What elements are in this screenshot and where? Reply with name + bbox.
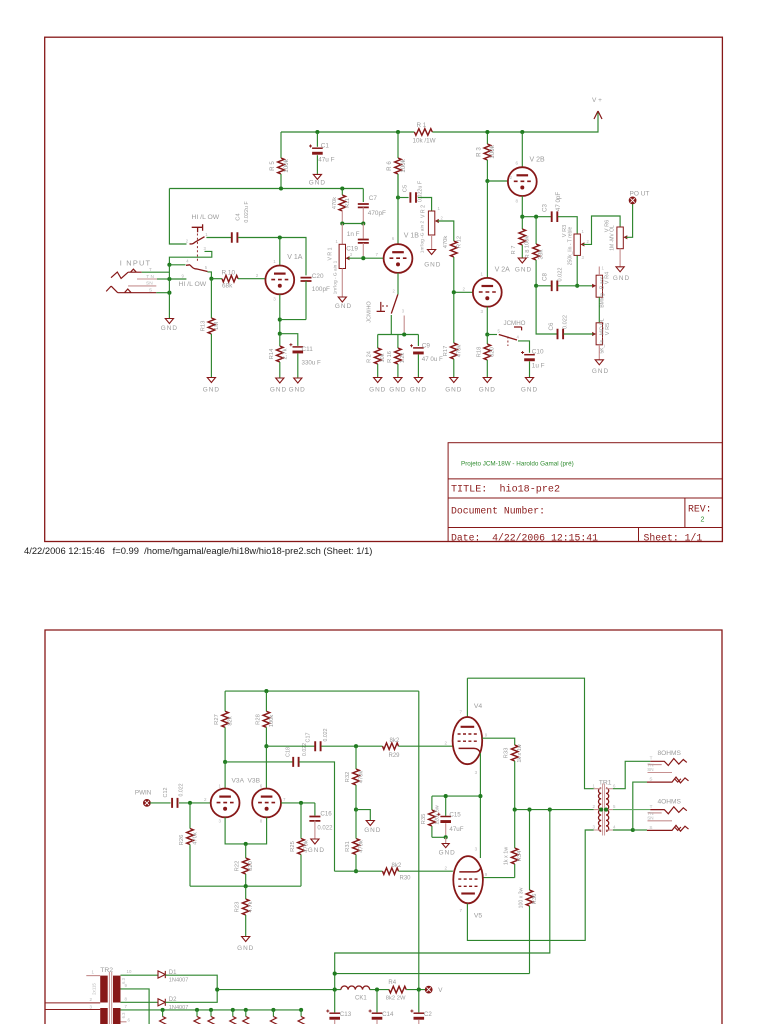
svg-text:V R 2: V R 2	[421, 205, 427, 218]
svg-text:R 5: R 5	[269, 161, 276, 171]
capacitor C8	[552, 281, 558, 292]
wire C12 to V3A grid	[179, 802, 211, 804]
svg-text:V R 1: V R 1	[327, 247, 333, 260]
resistor R27	[224, 691, 226, 711]
svg-text:0.022: 0.022	[323, 728, 329, 741]
resistor R14	[279, 334, 281, 346]
svg-text:V 2B: V 2B	[530, 157, 546, 164]
wire V+ rail left section	[281, 131, 414, 133]
wire VR3 pin 3 down	[576, 255, 578, 285]
svg-text:C9: C9	[422, 342, 431, 349]
svg-text:GND: GND	[424, 261, 441, 268]
svg-text:4.7k: 4.7k	[248, 901, 254, 912]
wire VR5 pin3 to ground	[598, 345, 600, 360]
sheet 2 border frame	[45, 630, 722, 1024]
svg-text:GND: GND	[203, 387, 220, 394]
svg-text:10: 10	[127, 969, 132, 974]
wire C5 to VR2	[418, 198, 432, 212]
TR2 pin 6 stub	[121, 1021, 127, 1023]
svg-text:R34: R34	[517, 850, 523, 861]
svg-text:1k x 1w: 1k x 1w	[504, 847, 510, 865]
svg-text:1m'log -G ain 2: 1m'log -G ain 2	[420, 220, 426, 253]
resistor R16	[397, 335, 399, 349]
wire V2B pin 6	[521, 132, 523, 167]
resistor R32	[355, 746, 357, 769]
ground below R23	[242, 937, 250, 942]
wire R8 node down to C6	[536, 286, 557, 334]
wire SW2 pin5 down to R10	[208, 272, 212, 279]
svg-text:0.022: 0.022	[557, 268, 563, 282]
wire VR4 pin3 to VR5 pin1	[598, 297, 600, 323]
capacitor C13	[334, 990, 336, 1013]
potentiometer VR2	[428, 211, 434, 235]
svg-text:5K_lin - MiD DL: 5K_lin - MiD DL	[599, 318, 605, 353]
svg-text:CK1: CK1	[355, 995, 367, 1001]
svg-text:0.022: 0.022	[178, 783, 184, 796]
node C	[167, 291, 171, 295]
svg-text:R17: R17	[443, 346, 449, 357]
terminal PWIN	[144, 800, 151, 807]
svg-text:100k: 100k	[269, 715, 275, 728]
svg-text:C15: C15	[449, 811, 461, 818]
svg-text:R 7: R 7	[511, 245, 517, 254]
svg-text:GND: GND	[521, 387, 538, 394]
ground below VR2	[428, 250, 436, 255]
node C15 top	[444, 794, 448, 798]
potentiometer VR6	[617, 227, 623, 249]
node V3B out	[299, 801, 303, 805]
resistor R23	[245, 886, 247, 899]
svg-text:470k: 470k	[332, 197, 338, 209]
svg-text:R14: R14	[269, 348, 275, 359]
node bus-R23	[244, 884, 248, 888]
ground below R13	[207, 378, 215, 383]
svg-text:820: 820	[248, 861, 254, 871]
svg-text:100pF: 100pF	[312, 286, 330, 293]
node V1A cathode branch	[278, 332, 282, 336]
svg-text:R35: R35	[421, 814, 427, 825]
node C4-V1A grid	[278, 235, 282, 239]
resistor R34	[514, 810, 516, 848]
wire TR1 pin 5 to 4ohm tip	[613, 809, 650, 811]
capacitor C5	[398, 197, 409, 199]
wire V3A cathode	[225, 817, 267, 844]
svg-text:R 6: R 6	[386, 161, 393, 171]
wire VR6 wiper to POUT	[626, 204, 633, 238]
potentiometer VR3	[574, 234, 580, 255]
svg-text:GND: GND	[613, 275, 630, 282]
svg-text:REV:: REV:	[688, 504, 712, 515]
svg-text:C8: C8	[541, 272, 548, 280]
resistor R1	[414, 129, 432, 136]
svg-text:V3A: V3A	[232, 777, 245, 784]
svg-text:10k: 10k	[380, 353, 386, 362]
ground below C1	[313, 174, 321, 179]
resistor R22	[245, 844, 247, 858]
node C17-R32	[354, 744, 358, 748]
capacitor C12	[172, 798, 177, 808]
ground below C11	[294, 378, 302, 383]
node bus-R11	[340, 186, 344, 190]
wire feedback bus	[190, 885, 301, 887]
svg-text:100k: 100k	[524, 236, 530, 249]
svg-text:TITLE: hio18-pre2: TITLE: hio18-pre2	[451, 484, 560, 496]
svg-text:GND: GND	[389, 387, 406, 394]
svg-text:330u F: 330u F	[302, 359, 321, 366]
wire C18 to V5 grid path	[299, 762, 334, 871]
wire R8 to C8	[536, 285, 551, 287]
TR2 pin 7 heater bus	[121, 1009, 303, 1011]
svg-text:C11: C11	[302, 346, 314, 353]
ground below VR6	[616, 267, 624, 272]
svg-text:C2: C2	[424, 1011, 432, 1018]
svg-text:C1: C1	[321, 143, 330, 150]
wire V5 plate to TR1 pin 3	[467, 830, 593, 940]
capacitor C17	[315, 741, 320, 751]
svg-text:820: 820	[490, 347, 496, 357]
svg-text:R28: R28	[255, 714, 261, 725]
svg-text:0.022: 0.022	[302, 743, 308, 756]
node R31 bottom	[354, 869, 358, 873]
svg-text:V4: V4	[474, 703, 483, 710]
wire TR1 pin 6 to 8ohm jack	[613, 761, 650, 788]
wire B+ vertical to V terminal	[418, 691, 420, 990]
ground below C10	[525, 378, 533, 383]
wire V4 pin 9 to R33	[482, 738, 515, 745]
svg-text:SN: SN	[647, 767, 653, 772]
svg-text:S: S	[149, 287, 152, 293]
svg-text:R 16: R 16	[387, 351, 393, 363]
wire R29 to V4 grid	[399, 745, 453, 747]
svg-text:GND: GND	[364, 827, 381, 834]
svg-text:Projeto JCM-18W - Haroldo Gama: Projeto JCM-18W - Haroldo Gamal (pré)	[461, 460, 574, 467]
capacitor C9	[417, 335, 419, 347]
capacitor C3	[552, 211, 558, 222]
svg-text:1M -MV OL: 1M -MV OL	[610, 225, 616, 251]
capacitor C2	[418, 990, 420, 1013]
svg-text:GND: GND	[237, 945, 254, 952]
wire VR3 wiper to VR6	[583, 216, 620, 244]
svg-text:R13: R13	[201, 321, 207, 332]
triode V3B	[252, 789, 281, 818]
resistor R3	[486, 132, 488, 144]
svg-text:250k_lin - T reble: 250k_lin - T reble	[568, 227, 574, 266]
wire C3 to VR3	[558, 217, 577, 234]
svg-text:120x.5w: 120x.5w	[434, 805, 440, 825]
node R28 plate node	[264, 744, 268, 748]
resistor R8	[535, 217, 537, 244]
svg-text:C6: C6	[548, 322, 555, 330]
node C19-VR1-V1B	[361, 256, 365, 260]
svg-text:GND: GND	[161, 325, 178, 332]
ground below R17	[450, 378, 458, 383]
wire C20 bottom to cathode	[280, 319, 306, 321]
svg-text:8k2 2W: 8k2 2W	[386, 995, 406, 1001]
svg-text:82k: 82k	[228, 716, 234, 725]
POUT terminal	[629, 197, 636, 204]
svg-text:C18: C18	[286, 747, 292, 757]
wire R6 down to V1B pin 6	[397, 174, 399, 198]
wire cathode bus V1B	[378, 334, 419, 336]
ground below C9	[414, 378, 422, 383]
svg-text:Sheet: 1/1: Sheet: 1/1	[644, 532, 703, 543]
potentiometer VR4	[596, 275, 602, 297]
node R8-C8	[534, 284, 538, 288]
svg-text:GND: GND	[592, 368, 609, 375]
node V2A cathode	[485, 332, 489, 336]
terminal V	[425, 986, 432, 993]
svg-text:C17: C17	[306, 733, 312, 743]
svg-text:470k: 470k	[303, 840, 309, 853]
capacitor C18	[293, 757, 298, 767]
node B+ out	[417, 988, 421, 992]
V+ power arrow	[594, 111, 602, 119]
TR2 pin 10 wire to D1	[121, 974, 158, 976]
wire plate supply rail sheet2	[225, 690, 419, 692]
resistor R4	[389, 986, 406, 993]
svg-text:0.022: 0.022	[562, 315, 568, 329]
svg-text:R27: R27	[214, 714, 220, 725]
wire DC rail to choke	[217, 989, 341, 991]
ground below R18	[483, 378, 491, 383]
resistor R35	[431, 796, 433, 810]
wire V2B pin 8 down	[521, 196, 523, 217]
ground below VR5	[595, 360, 603, 365]
node rail-R3	[485, 130, 489, 134]
svg-text:SN: SN	[146, 281, 153, 287]
wire C8 to VR4 wiper	[558, 285, 593, 287]
svg-text:C19: C19	[346, 246, 358, 253]
ground bias node	[366, 821, 374, 826]
potentiometer VR1	[341, 224, 343, 245]
resistor R7	[521, 217, 523, 229]
svg-text:8k2: 8k2	[390, 738, 400, 744]
svg-text:8OHMS: 8OHMS	[658, 750, 682, 757]
svg-text:PO UT: PO UT	[630, 190, 650, 197]
node rail-R6	[396, 130, 400, 134]
wire switch to C10	[518, 341, 530, 353]
svg-text:R25: R25	[290, 841, 296, 852]
svg-text:100k: 100k	[400, 158, 407, 172]
capacitor C7	[362, 189, 364, 203]
svg-text:R31: R31	[345, 841, 351, 852]
capacitor C19 1nF	[362, 224, 364, 239]
svg-text:GND: GND	[479, 387, 496, 394]
svg-text:100k: 100k	[283, 158, 290, 172]
svg-text:R29: R29	[389, 753, 401, 759]
sheet 1 border frame	[45, 37, 723, 541]
resistor R28	[265, 691, 267, 711]
svg-text:R 1: R 1	[417, 122, 427, 129]
wire D2 to rail	[165, 990, 217, 1003]
wire TR1 CT drop	[335, 810, 550, 990]
capacitor C15	[445, 796, 447, 816]
svg-text:TR1: TR1	[599, 780, 612, 787]
svg-text:SN: SN	[647, 816, 653, 821]
wire R28 node to C17	[266, 745, 314, 747]
node R3-V2B grid	[485, 179, 489, 183]
TR2 pin 2 wire	[45, 1002, 100, 1004]
node V2B cathode-C3 wire	[520, 215, 524, 219]
node R32-R31 bias	[354, 808, 358, 812]
title block	[448, 443, 722, 542]
wire V1A pin 3 down	[279, 294, 281, 333]
svg-text:0.022u F: 0.022u F	[417, 180, 423, 202]
svg-text:1N4007: 1N4007	[169, 977, 189, 983]
svg-text:V R5: V R5	[605, 323, 611, 335]
TR2 pin 9 wire down	[121, 989, 150, 1024]
VR4 pin 1 stub	[598, 267, 600, 276]
svg-text:C10: C10	[532, 348, 544, 355]
svg-text:4OHMS: 4OHMS	[658, 798, 682, 805]
svg-text:R32: R32	[345, 772, 351, 783]
wire V4 plate rail	[467, 678, 593, 789]
wire TR1 pin 4 to speaker common	[613, 829, 633, 831]
node link-C19	[361, 221, 365, 225]
node screen-R33	[513, 808, 517, 812]
svg-text:100k: 100k	[489, 144, 496, 158]
svg-text:S: S	[649, 777, 652, 782]
svg-text:470pF: 470pF	[368, 210, 386, 217]
wire R27 node to C18	[225, 761, 292, 763]
wire left vertical from bus to SW1	[169, 189, 186, 245]
svg-text:470k: 470k	[192, 832, 198, 845]
wire input TN to node	[157, 278, 169, 280]
resistor R33	[511, 745, 518, 761]
svg-text:C20: C20	[312, 273, 324, 280]
node rectifier rail	[215, 988, 219, 992]
svg-text:PWIN: PWIN	[135, 790, 152, 797]
wire R35 C15 bottom	[432, 836, 446, 838]
svg-text:47uF: 47uF	[449, 826, 463, 833]
node rail-R28	[264, 689, 268, 693]
svg-text:GND: GND	[270, 387, 287, 394]
svg-text:470k: 470k	[359, 771, 365, 784]
node R10-R13	[209, 277, 213, 281]
svg-text:C4: C4	[236, 213, 242, 221]
switch JCM/HO 2	[487, 334, 497, 336]
svg-text:4/22/2006 12:15:46 f=0.99 /: 4/22/2006 12:15:46 f=0.99 /home/hgamal/e…	[24, 545, 372, 556]
svg-text:HI /L OW: HI /L OW	[179, 281, 207, 288]
svg-text:T N: T N	[146, 274, 154, 280]
wire switch common down	[390, 315, 392, 335]
resistor R11	[341, 189, 343, 196]
svg-text:C16: C16	[320, 811, 332, 818]
wire node B to SW2 common	[169, 278, 186, 280]
ground input	[165, 319, 173, 324]
svg-text:33k: 33k	[537, 249, 544, 260]
wire R12 node down to R17	[453, 292, 455, 343]
ground below R24	[374, 378, 382, 383]
wire V+ rail right section to V+ arrow	[432, 111, 598, 132]
diode D2	[158, 999, 165, 1006]
wire R3 to V2B pin 2	[487, 180, 508, 182]
triode V2A	[473, 278, 502, 307]
ground below C15	[445, 837, 447, 843]
node R12-V2A grid	[452, 290, 456, 294]
ground below R14	[276, 378, 284, 383]
wire R36 to B+ node	[335, 973, 530, 975]
svg-text:GND: GND	[369, 387, 386, 394]
wire to C16	[314, 803, 316, 816]
TR2 pin 1	[86, 975, 100, 977]
svg-text:S: S	[649, 825, 652, 830]
wire node A down to ground	[168, 265, 170, 319]
svg-text:2.7k: 2.7k	[282, 348, 288, 359]
svg-text:47 0u F: 47 0u F	[422, 356, 443, 363]
svg-text:1N4007: 1N4007	[169, 1005, 189, 1011]
pentode V4	[453, 717, 483, 764]
wire grid bus y189	[169, 188, 363, 190]
capacitor C4	[232, 232, 238, 243]
svg-text:Date: 4/22/2006 12:15:41: Date: 4/22/2006 12:15:41	[451, 532, 598, 543]
svg-text:1M: 1M	[214, 322, 220, 330]
capacitor C6	[558, 329, 564, 340]
node TR1 pin5	[604, 808, 608, 812]
node screen-R36	[527, 808, 531, 812]
capacitor C10	[524, 354, 535, 356]
svg-text:GND: GND	[308, 847, 325, 854]
svg-text:GND: GND	[439, 850, 456, 857]
wire switch pin3 down	[403, 316, 405, 335]
svg-text:1u F: 1u F	[532, 363, 545, 370]
svg-text:R33: R33	[504, 748, 510, 759]
svg-text:BMlog - B ass: BMlog - B ass	[599, 276, 605, 308]
svg-text:470k: 470k	[443, 236, 449, 249]
svg-text:0.022u F: 0.022u F	[244, 201, 250, 223]
TR2 pin 3 wire	[45, 1009, 100, 1011]
resistor R31	[353, 839, 360, 855]
wire VR2 pin3 to ground	[431, 235, 433, 250]
svg-text:GND: GND	[515, 267, 532, 274]
svg-text:V3B: V3B	[248, 777, 261, 784]
capacitor C14	[376, 990, 378, 1013]
svg-text:R36: R36	[532, 894, 538, 905]
wire VR1 pin3 to ground	[341, 269, 343, 298]
ground below VR1	[338, 297, 346, 302]
node cathode-R22	[244, 842, 248, 846]
resistor R6	[397, 132, 399, 158]
heater bus components	[161, 1008, 165, 1012]
svg-text:R22: R22	[235, 861, 241, 872]
svg-text:C7: C7	[369, 195, 378, 202]
node screen-CT drop	[548, 808, 552, 812]
wire C6 to VR5 wiper	[564, 333, 594, 335]
wire R4 to V terminal	[406, 989, 425, 991]
node TR1 pin2	[599, 808, 603, 812]
node R6-C5	[396, 195, 400, 199]
svg-text:R 3: R 3	[476, 147, 483, 157]
triode V1B	[384, 244, 413, 273]
node cathode bus pin3	[402, 332, 406, 336]
node rail-C1	[315, 130, 319, 134]
wire cathode to R35/C15	[432, 795, 481, 797]
wire R30 to V5 grid	[399, 870, 453, 872]
wire node A to SW2 pin 4	[169, 264, 185, 266]
svg-text:100 x 3w: 100 x 3w	[518, 887, 524, 908]
svg-text:C14: C14	[382, 1011, 394, 1018]
wire C17 to R29	[321, 745, 382, 747]
ground below R7	[518, 258, 526, 263]
node A input-SW2	[167, 263, 171, 267]
resistor R24	[377, 335, 379, 349]
resistor R26	[189, 803, 191, 829]
svg-text:0.022: 0.022	[317, 826, 333, 832]
svg-text:V5: V5	[474, 913, 483, 920]
resistor R12	[451, 241, 458, 257]
svg-text:Document Number:: Document Number:	[451, 505, 545, 516]
wire V3A pin 1	[224, 762, 226, 789]
